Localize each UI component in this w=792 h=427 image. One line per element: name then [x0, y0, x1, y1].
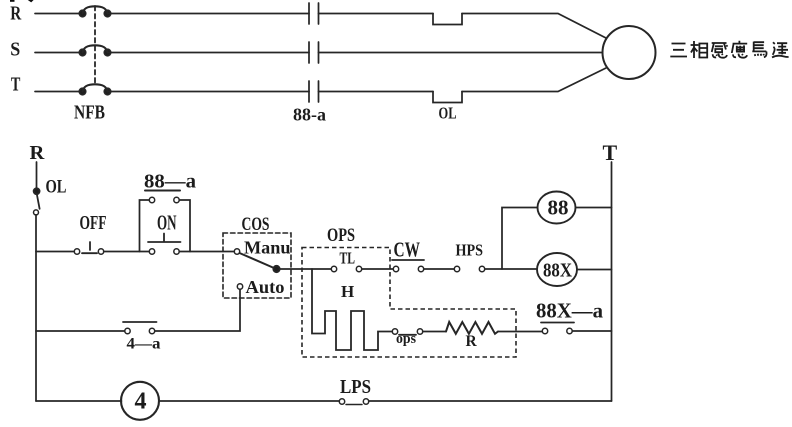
svg-text:88-a: 88-a — [293, 105, 326, 125]
contact 88-a (seal-in branch) — [140, 197, 191, 251]
svg-text:4: 4 — [135, 389, 147, 415]
selector switch COS box — [223, 233, 291, 298]
timer OPS dashed enclosure — [302, 248, 516, 358]
scan artifact top-left — [10, 0, 34, 2]
svg-text:OL: OL — [46, 177, 67, 198]
svg-text:ops: ops — [396, 331, 416, 347]
svg-text:OFF: OFF — [80, 212, 107, 234]
svg-text:Auto: Auto — [246, 277, 285, 297]
svg-text:COS: COS — [242, 215, 270, 235]
wire main rung segment 3 — [179, 251, 234, 253]
wire ops to resistor — [423, 331, 446, 333]
wire bottom rung left — [36, 400, 122, 402]
svg-text:88—a: 88—a — [144, 170, 196, 192]
svg-text:LPS: LPS — [340, 376, 371, 398]
bar 88-a underline — [145, 190, 180, 192]
contact 88X-a — [542, 328, 572, 333]
wire main rung segment 1 — [36, 251, 74, 253]
wire resistor to 88X-a — [498, 331, 542, 333]
contact 88-a pole R — [309, 3, 319, 24]
wire right rail — [611, 162, 613, 401]
wire bottom rung right — [369, 400, 612, 402]
contact ops — [392, 329, 422, 335]
contact TL — [331, 266, 361, 271]
coil 88 — [538, 192, 612, 224]
svg-text:88X—a: 88X—a — [536, 299, 603, 323]
label motor chinese — [670, 41, 788, 58]
svg-text:TL: TL — [340, 248, 356, 267]
svg-text:ON: ON — [157, 210, 177, 234]
breaker NFB pole S — [79, 45, 110, 55]
contact CW — [393, 266, 423, 271]
wire T phase to motor — [462, 68, 606, 92]
heater H of timer — [312, 269, 392, 350]
node COS common — [273, 266, 279, 272]
svg-text:Manu: Manu — [244, 238, 291, 258]
wire TL to CW — [362, 268, 393, 270]
pushbutton ON — [148, 234, 181, 255]
wire COS common to TL — [280, 268, 332, 270]
bar 88X-a underline — [541, 322, 574, 324]
svg-text:OPS: OPS — [327, 226, 355, 246]
overload heater OL on R — [433, 14, 462, 25]
svg-text:CW: CW — [394, 238, 421, 262]
pushbutton OFF — [74, 242, 103, 254]
wire branch up to 88 coil — [502, 208, 538, 270]
svg-text:NFB: NFB — [74, 102, 105, 124]
wire Auto to 4-a branch — [155, 289, 240, 331]
contact Auto — [237, 284, 242, 289]
overload heater OL on T — [433, 92, 462, 103]
wire HPS to 88X coil — [485, 268, 537, 270]
resistor R — [446, 322, 498, 334]
wire left rail top — [36, 162, 38, 188]
wire R phase after 88-a — [319, 13, 434, 15]
breaker NFB pole R — [79, 6, 110, 16]
wire bottom rung mid — [159, 400, 339, 402]
svg-text:OL: OL — [439, 104, 457, 123]
wire R phase mid — [108, 13, 310, 15]
svg-text:HPS: HPS — [456, 241, 484, 260]
svg-text:S: S — [10, 38, 20, 60]
wire T phase mid — [108, 91, 310, 93]
wire left rail to main rung — [35, 215, 37, 401]
breaker NFB linkage dashed — [94, 6, 96, 84]
wire main rung segment 2 — [104, 251, 149, 253]
wire T phase after 88-a — [319, 91, 434, 93]
contact Manu — [234, 249, 239, 254]
contact 88-a pole S — [309, 42, 319, 63]
svg-text:4—a: 4—a — [127, 336, 161, 353]
svg-text:88: 88 — [548, 196, 569, 220]
coil 4 — [121, 382, 159, 420]
wire S phase left — [35, 52, 83, 54]
contact 88-a pole T — [309, 81, 319, 102]
switch blade COS — [240, 253, 275, 268]
wire CW to HPS — [424, 268, 454, 270]
wire 4-a branch to rail — [36, 330, 125, 332]
wire 88X-a to rail — [572, 330, 611, 332]
wire R phase to motor — [462, 14, 606, 39]
svg-text:H: H — [341, 282, 354, 301]
bar CW underline — [392, 259, 424, 261]
wire S phase after 88-a — [319, 52, 603, 54]
wire T phase left — [35, 91, 83, 93]
wire R phase left — [35, 13, 83, 15]
contact HPS — [454, 266, 484, 271]
wire S phase mid — [108, 52, 310, 54]
svg-text:R: R — [10, 2, 21, 24]
contact LPS — [339, 399, 368, 405]
svg-text:R: R — [466, 333, 478, 350]
svg-text:T: T — [603, 140, 618, 165]
svg-text:88X: 88X — [543, 260, 572, 282]
contact 4-a — [123, 322, 157, 334]
svg-text:T: T — [11, 73, 21, 95]
svg-text:R: R — [30, 142, 45, 164]
contact OL (control, b-contact) — [34, 188, 40, 215]
motor M circle — [603, 26, 656, 79]
coil 88X — [537, 253, 612, 286]
breaker NFB pole T — [79, 84, 110, 94]
